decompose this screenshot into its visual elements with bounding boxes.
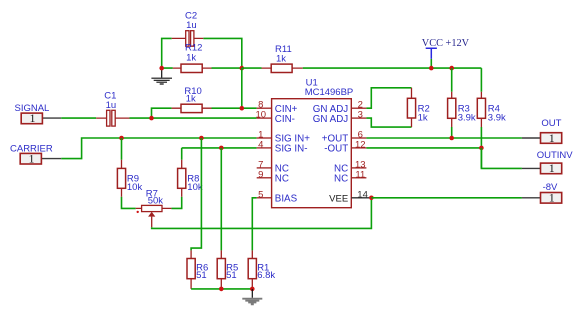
svg-text:14: 14	[357, 189, 368, 200]
potentiometer R7	[136, 188, 172, 227]
pin 11 lead	[351, 177, 366, 179]
svg-text:51: 51	[196, 270, 207, 281]
junction VCC stem	[429, 66, 434, 71]
svg-text:NC: NC	[334, 174, 348, 185]
wire OUTINV jog	[481, 148, 522, 169]
svg-text:1: 1	[549, 191, 555, 205]
resistor R8	[171, 148, 202, 209]
svg-text:SIG IN-: SIG IN-	[275, 144, 308, 155]
pin 1 lead	[257, 137, 272, 139]
wire R5 chain	[220, 148, 222, 251]
resistor R2	[407, 88, 429, 127]
resistor R11	[262, 64, 303, 72]
junction R1 bottom	[250, 287, 255, 292]
port -8V	[522, 182, 562, 205]
wire pin 4 row	[182, 147, 257, 149]
svg-text:4: 4	[258, 139, 263, 150]
junction pin14 / VEE node	[369, 196, 374, 201]
svg-text:9: 9	[258, 169, 263, 180]
pin 5 lead	[257, 197, 272, 199]
port CARRIER	[10, 143, 61, 165]
wire CARRIER to pin 1 row	[61, 138, 257, 159]
svg-text:51: 51	[226, 270, 237, 281]
svg-text:1u: 1u	[106, 100, 117, 111]
port OUTINV	[522, 150, 573, 175]
junction R5 bottom	[219, 287, 224, 292]
junction R12 right	[240, 66, 245, 71]
svg-text:1k: 1k	[186, 53, 196, 64]
resistor R10	[172, 104, 212, 112]
svg-text:10k: 10k	[187, 182, 203, 193]
wire BIAS to R1	[252, 198, 256, 251]
svg-text:VEE: VEE	[329, 194, 348, 205]
resistor R4	[477, 68, 506, 168]
svg-text:12: 12	[355, 139, 366, 150]
power VCC +12V	[422, 38, 470, 68]
wire R11 row to VCC rail	[242, 67, 482, 69]
junction R4 bottom / pin12	[479, 146, 484, 151]
wire pin 12 row	[366, 147, 481, 149]
resistor R1	[248, 250, 275, 289]
wire VEE to -8V port	[371, 197, 522, 199]
ground (C2/R12 node)	[151, 68, 172, 84]
svg-text:OUTINV: OUTINV	[537, 150, 574, 161]
pin 10 lead	[257, 117, 272, 119]
svg-text:NC: NC	[275, 174, 289, 185]
wire SIGNAL to C1 to pin 10	[61, 117, 257, 119]
wire pin 6 row to OUT	[366, 137, 522, 139]
pin 2 lead	[351, 107, 366, 109]
wire R12 row	[162, 67, 242, 69]
svg-text:10: 10	[256, 110, 267, 121]
svg-text:MC1496BP: MC1496BP	[305, 87, 354, 98]
resistor R3	[448, 68, 476, 138]
pin 3 lead	[351, 117, 366, 119]
pin 12 lead	[351, 147, 366, 149]
svg-text:CIN-: CIN-	[275, 114, 295, 125]
resistor R6	[187, 250, 208, 289]
svg-text:1: 1	[549, 161, 555, 175]
svg-text:1k: 1k	[186, 94, 196, 105]
junction R3 bottom	[449, 136, 454, 141]
svg-text:5: 5	[258, 189, 263, 200]
pin 6 lead	[351, 137, 366, 139]
pin 14 lead (VEE)	[351, 197, 369, 199]
wire C2/R12 left vertical and C2 row	[162, 38, 242, 68]
junction R9 top	[119, 136, 124, 141]
junction R6 chain top	[199, 136, 204, 141]
svg-text:-OUT: -OUT	[324, 144, 348, 155]
pin 13 lead	[351, 167, 366, 169]
pin 8 lead	[257, 107, 272, 109]
port SIGNAL	[15, 103, 62, 125]
svg-text:6.8k: 6.8k	[257, 270, 275, 281]
svg-text:3.9k: 3.9k	[488, 112, 506, 123]
resistor R12	[173, 64, 212, 72]
svg-text:10k: 10k	[127, 182, 143, 193]
port OUT	[522, 118, 562, 145]
wire vertical C2-node to pin8 row	[241, 68, 243, 108]
svg-text:OUT: OUT	[541, 118, 561, 129]
pin 7 lead	[257, 167, 272, 169]
junction R12 left	[159, 66, 164, 71]
svg-text:BIAS: BIAS	[275, 194, 298, 205]
svg-text:GN ADJ: GN ADJ	[313, 114, 348, 125]
wire bottom rail	[191, 288, 252, 290]
capacitor C1	[96, 110, 129, 126]
pin 9 lead	[257, 177, 272, 179]
svg-text:1: 1	[29, 152, 35, 166]
svg-text:3.9k: 3.9k	[458, 112, 476, 123]
junction pin10 row	[149, 116, 154, 121]
svg-text:11: 11	[355, 169, 365, 180]
svg-text:1: 1	[30, 111, 36, 125]
ground (bottom)	[242, 289, 262, 304]
svg-text:3: 3	[358, 110, 363, 121]
junction R3 top	[449, 66, 454, 71]
IC U1 MC1496BP	[272, 99, 352, 208]
wire R2 loop	[366, 88, 411, 127]
junction R10 right / pin8	[240, 106, 245, 111]
svg-text:1: 1	[549, 131, 555, 145]
resistor R5	[217, 250, 238, 289]
svg-text:1k: 1k	[276, 53, 286, 64]
junction R5 chain top	[219, 146, 224, 151]
svg-text:1k: 1k	[418, 112, 428, 123]
wire R6 chain	[191, 138, 201, 250]
capacitor C2	[172, 31, 204, 47]
svg-text:50k: 50k	[148, 196, 164, 207]
pin 4 lead	[257, 147, 272, 149]
svg-text:1u: 1u	[186, 20, 197, 31]
wire R10 row (pin 8)	[152, 108, 257, 118]
wire wiper rail to VEE node	[152, 198, 372, 229]
resistor R9	[117, 138, 142, 208]
